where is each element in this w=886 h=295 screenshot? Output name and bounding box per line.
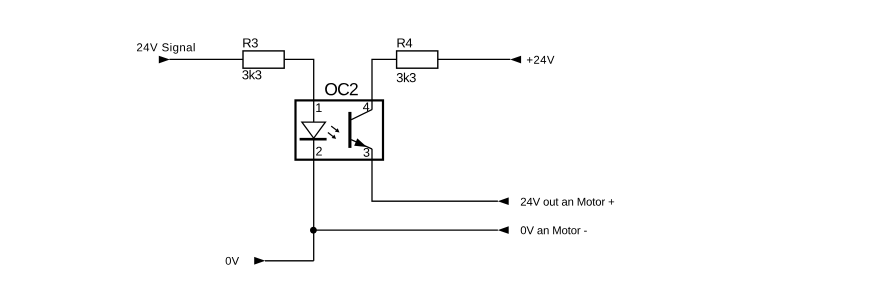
wire 0V corner [265, 260, 314, 262]
wire junction to motor - [314, 229, 498, 231]
pin 1 [316, 103, 321, 112]
resistor R3 [243, 51, 284, 68]
resistor R4 [397, 51, 438, 68]
node 24V Signal label [137, 43, 195, 54]
input arrow +24V [510, 56, 521, 64]
pin 2 [316, 147, 322, 156]
wire pin 3 down and right to motor + [372, 149, 498, 201]
node label 0V an Motor - [521, 226, 587, 234]
label OC2 [325, 83, 358, 95]
wire pin 4 to R4 [372, 59, 397, 109]
input arrow 24V Signal [159, 56, 170, 64]
wire 24V Signal to R3 [170, 58, 244, 60]
phototransistor Q base bar [348, 112, 351, 148]
output arrow 0V an Motor - [498, 226, 509, 234]
wire R4 to +24V [438, 58, 511, 60]
LED cathode bar [300, 138, 327, 141]
node +24V label [527, 56, 554, 64]
wire R3 to OC2 pin 1 [285, 59, 314, 122]
op-to: optocoupler OC2 body [296, 100, 384, 159]
node 0V label [226, 257, 239, 265]
value 3k3 (R3) [242, 70, 261, 80]
label R3 [243, 38, 258, 47]
pin 3 [363, 148, 369, 157]
output arrow 24V out an Motor + [498, 197, 509, 205]
junction dot [310, 227, 317, 234]
label R4 [397, 38, 412, 47]
value 3k3 (R4) [397, 73, 416, 83]
light arrow 1 [331, 126, 339, 132]
pin 4 [363, 103, 369, 112]
wire LED cathode to junction and 0V corner [313, 139, 315, 261]
emitter line with arrow [351, 138, 372, 149]
node label 24V out an Motor + [521, 198, 614, 206]
LED D (anode triangle) [302, 122, 326, 138]
light arrow 2 [328, 133, 336, 139]
collector line to pin 4 [351, 110, 372, 120]
input arrow 0V [254, 257, 265, 265]
